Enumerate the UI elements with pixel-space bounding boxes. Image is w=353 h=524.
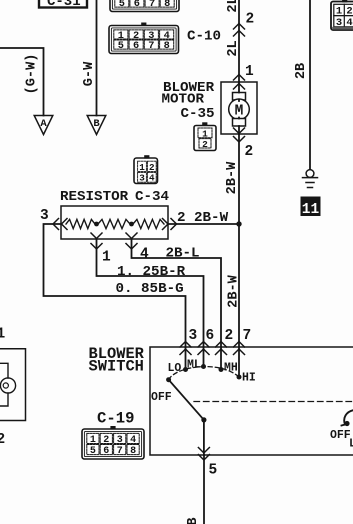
svg-text:5: 5	[118, 40, 124, 52]
svg-text:2L: 2L	[226, 0, 241, 13]
svg-text:7: 7	[148, 40, 154, 52]
connector crossing chevrons pin 2	[234, 24, 245, 37]
connector C-19 block	[82, 426, 144, 459]
OFF contact dot	[166, 377, 171, 382]
svg-text:HI: HI	[242, 371, 256, 384]
chevrons resistor right	[163, 219, 177, 230]
connector crossing chevrons at motor top	[234, 75, 245, 90]
resistor R1 box	[61, 206, 168, 239]
wire pin1 (1.25B-R)	[97, 239, 204, 367]
svg-text:5: 5	[209, 462, 218, 478]
motor brush top	[233, 93, 246, 101]
svg-text:MOTOR: MOTOR	[162, 92, 205, 108]
wire pivot to pin 5	[203, 420, 205, 455]
connector label box C-31 (cut at top edge)	[39, 0, 87, 10]
connector crossing chevrons at motor bottom	[234, 128, 245, 142]
svg-text:2: 2	[149, 162, 155, 173]
connector C-34 icon	[134, 155, 158, 184]
svg-text:1: 1	[202, 128, 208, 139]
lamp bracket wire	[0, 363, 8, 406]
right lever stub	[342, 410, 353, 426]
svg-text:1: 1	[102, 250, 111, 266]
svg-text:C-31: C-31	[47, 0, 81, 10]
junction dot 2B-W	[236, 221, 241, 226]
svg-text:B: B	[93, 118, 100, 130]
svg-text:7: 7	[243, 328, 252, 344]
junction dots inside resistor	[94, 222, 99, 227]
svg-text:3: 3	[139, 173, 145, 184]
svg-text:5: 5	[90, 446, 96, 457]
contact dots LO ML MH HI	[183, 367, 188, 372]
right OFF contact (cut)	[344, 421, 349, 426]
chevrons pin4	[126, 233, 137, 249]
svg-text:2B-W: 2B-W	[225, 161, 240, 194]
motor brush bottom	[233, 119, 246, 127]
svg-text:B: B	[186, 517, 201, 524]
svg-text:6: 6	[103, 446, 109, 457]
wire 2L from top edge to blower motor	[238, 0, 240, 82]
svg-text:SWITCH: SWITCH	[89, 357, 144, 375]
svg-text:1: 1	[336, 6, 342, 18]
svg-text:6: 6	[134, 0, 140, 10]
connector C-35 icon	[194, 122, 216, 150]
svg-text:1: 1	[0, 326, 6, 342]
dashed line to right section	[194, 401, 353, 403]
connector block top-right (cut)	[331, 0, 353, 30]
svg-text:2 2B-W: 2 2B-W	[177, 210, 229, 226]
svg-text:1. 25B-R: 1. 25B-R	[117, 264, 186, 280]
wire pin3 to switch (0.85B-G)	[44, 224, 186, 369]
svg-text:G-W: G-W	[82, 61, 97, 86]
wire 2B-W motor to junction	[238, 134, 240, 377]
svg-text:4: 4	[140, 247, 149, 263]
svg-text:7: 7	[117, 446, 123, 457]
svg-text:4: 4	[149, 173, 155, 184]
svg-text:C-35: C-35	[181, 106, 215, 122]
svg-text:L: L	[349, 438, 353, 451]
svg-text:1: 1	[245, 64, 254, 80]
chevrons pin1	[91, 233, 102, 249]
svg-text:8: 8	[164, 40, 170, 52]
svg-text:11: 11	[302, 202, 320, 218]
switch lever	[169, 380, 204, 420]
svg-text:8: 8	[164, 0, 170, 10]
wire 2B to ground	[309, 0, 311, 170]
chevrons pin 5	[198, 448, 209, 461]
lamp bulb	[0, 378, 15, 393]
ground ref box 11	[301, 197, 321, 217]
connector block (cut at top edge, pins 5-8)	[110, 0, 179, 12]
svg-text:2B-W: 2B-W	[226, 274, 241, 307]
svg-text:8: 8	[130, 446, 136, 457]
resistor element zigzags	[66, 219, 164, 228]
chevrons resistor left	[53, 219, 67, 230]
svg-text:6: 6	[206, 328, 215, 344]
wire (G-W) from left edge to node A	[0, 48, 44, 116]
node B triangle	[87, 116, 106, 135]
svg-text:LO: LO	[168, 362, 182, 375]
blower motor M1 box	[221, 82, 257, 134]
svg-text:2: 2	[0, 432, 5, 448]
svg-text:(G-W): (G-W)	[25, 54, 40, 95]
svg-text:ML: ML	[187, 359, 201, 372]
svg-text:2L: 2L	[226, 40, 241, 56]
svg-text:2B: 2B	[294, 63, 309, 79]
svg-text:C-34: C-34	[135, 189, 170, 205]
svg-text:2: 2	[245, 144, 254, 160]
connector C-10 block	[109, 23, 179, 54]
chevrons switch pins	[180, 342, 245, 355]
svg-text:2: 2	[246, 12, 255, 28]
svg-text:MH: MH	[224, 362, 238, 375]
ground symbol	[303, 170, 318, 188]
svg-text:2B-L: 2B-L	[166, 246, 200, 262]
svg-text:2: 2	[346, 6, 352, 18]
wire B to bottom edge	[203, 455, 205, 524]
illumination lamp box (cut at left edge)	[0, 349, 26, 421]
svg-text:OFF: OFF	[151, 391, 172, 404]
lever pivot dot	[201, 417, 206, 422]
blower switch box	[150, 347, 353, 455]
dashed contact arc	[169, 367, 239, 380]
svg-text:0. 85B-G: 0. 85B-G	[116, 281, 184, 297]
node A triangle	[34, 116, 53, 135]
wire motor internal top	[238, 82, 240, 134]
wire resistor pin2 to junction	[168, 223, 239, 225]
wire G-W from top edge to node B	[96, 0, 98, 116]
svg-text:3: 3	[40, 208, 49, 224]
svg-text:3: 3	[189, 328, 198, 344]
svg-text:C-19: C-19	[97, 409, 134, 427]
motor circle	[229, 99, 250, 120]
svg-text:RESISTOR: RESISTOR	[60, 189, 129, 205]
svg-text:A: A	[40, 118, 47, 130]
svg-text:C-10: C-10	[187, 29, 221, 45]
svg-text:7: 7	[149, 0, 155, 10]
svg-text:6: 6	[133, 40, 139, 52]
svg-text:2: 2	[225, 328, 234, 344]
svg-text:OFF: OFF	[330, 429, 351, 442]
svg-text:2: 2	[202, 139, 208, 150]
wire pin4 (2B-L)	[132, 239, 222, 369]
svg-text:5: 5	[119, 0, 125, 10]
svg-text:1: 1	[139, 162, 145, 173]
